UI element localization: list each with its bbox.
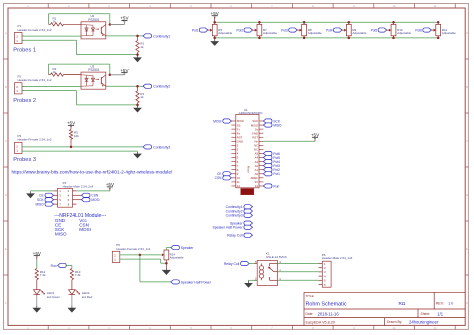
wire P4 pin1 to ground [31,190,54,192]
net flag Continuity3 (floating) [244,213,253,217]
net flag Relay Coil (floating) [244,233,253,237]
ground pot rail [214,39,216,41]
svg-text:+5V: +5V [33,251,42,256]
svg-text:MOSI: MOSI [79,227,91,232]
wire +5V stub [214,17,216,22]
wire +5V loop [48,14,50,24]
wire K1 pin4 to P6 pin1 [278,263,319,265]
wire R13 to LED2 [71,280,73,290]
resistor R6 Adjustable (pot) [214,22,216,24]
net flag Speaker (floating) [244,221,253,225]
net flag Pot6 [263,151,272,155]
svg-text:7.4k: 7.4k [75,273,81,277]
junction [437,21,440,24]
svg-text:Header-Female 2.54_1x2: Header-Female 2.54_1x2 [18,138,52,142]
svg-text:A: A [5,31,7,35]
svg-text:CE: CE [39,194,43,198]
junction [136,53,139,56]
svg-text:1k: 1k [140,45,144,49]
svg-text:MOSI: MOSI [91,198,99,202]
svg-text:GSLE-14 5VDC: GSLE-14 5VDC [266,255,288,259]
svg-text:PS2501: PS2501 [88,18,100,22]
junction [109,74,112,77]
junction [136,35,139,38]
svg-text:13: 13 [255,184,259,188]
wire P4 pin2 to +5V [76,190,110,192]
net flag CSN [223,176,232,180]
wire LED1 to ground [36,295,38,306]
svg-text:B: B [5,85,7,89]
svg-text:Relay Coil: Relay Coil [224,262,240,266]
junction [139,254,142,257]
svg-text:Pot1: Pot1 [192,28,199,32]
svg-text:led Red: led Red [82,295,93,299]
svg-text:Continuity1: Continuity1 [153,34,170,38]
svg-text:Adjustable: Adjustable [218,31,232,35]
net flag Speaker Half Power [171,280,180,284]
junction [303,21,306,24]
svg-text:1/1: 1/1 [437,312,443,317]
ground [30,191,32,193]
net flag Pot6 [423,28,432,32]
wire P pin1 to ground run [22,90,77,92]
net flag Continuity1 (floating) [244,205,253,209]
svg-text:Pot1: Pot1 [273,172,280,176]
net flag Continuity2 (floating) [244,209,253,213]
resistor R11 Adjustable (pot) [437,22,439,24]
svg-text:Rohm Schematic: Rohm Schematic [306,301,347,307]
ground [137,55,139,57]
svg-text:led Green: led Green [47,295,61,299]
svg-text:C: C [466,139,468,143]
svg-text:C: C [5,139,7,143]
wire K1 pin3 to P6 pin5 [278,279,319,281]
diode LED2 led Red [69,290,76,295]
svg-text:MOSI: MOSI [213,119,221,123]
svg-text:Adjustable: Adjustable [263,31,277,35]
svg-text:+5V: +5V [106,182,115,187]
svg-text:10k: 10k [74,134,79,138]
wire U1 Vin to +5V [263,140,315,142]
net flag Pot3 [263,164,272,168]
border row ticks left/right [4,58,9,60]
svg-text:A: A [466,31,468,35]
svg-text:Header-Female 2.54_1x2: Header-Female 2.54_1x2 [18,28,52,32]
svg-text:PS2501: PS2501 [88,68,100,72]
svg-text:E: E [5,247,7,251]
svg-text:Adjustable: Adjustable [308,31,322,35]
wire P3 pin2 to Continuity3 [22,146,143,148]
ground [137,106,139,108]
svg-text:CSN: CSN [215,176,222,180]
svg-text:Pot6: Pot6 [415,28,422,32]
svg-text:Pot2: Pot2 [237,28,244,32]
resistor R8 Adjustable (pot) [303,22,305,24]
net flag CSN [76,194,81,196]
net flag Pot4 [263,160,272,164]
wire R12 to LED1 [36,280,38,290]
svg-text:Sheet:: Sheet: [421,312,431,316]
svg-text:Micro: Micro [246,166,250,173]
resistor R14 Adjustable (pot) [164,250,169,260]
net flag SCK [45,198,54,202]
ground [165,268,167,270]
wire pot top to Speaker [165,248,167,250]
svg-text:Drawn By:: Drawn By: [387,320,402,324]
junction [165,262,168,265]
net flag Pot2 [263,168,272,172]
ground [137,152,139,154]
net flag MISO [45,202,54,206]
svg-text:Probes 2: Probes 2 [13,98,36,104]
wire Run to R13 [67,264,72,266]
svg-text:Continuity3: Continuity3 [226,214,243,218]
net flag Pot4 [333,28,342,32]
svg-text:Speaker: Speaker [181,246,194,250]
wire K1 pin1 to P6 pin3 [278,271,319,273]
svg-text:Pot4: Pot4 [326,28,333,32]
svg-text:2018-11-16: 2018-11-16 [318,312,340,317]
wire Relay Coil to K1 pin5 [249,263,254,265]
wire P pin2 to opto pin2 [22,35,81,37]
resistor R9 Adjustable (pot) [348,22,350,24]
svg-text:Pot5: Pot5 [371,28,378,32]
wire opto emitter to Continuity1 [106,35,143,37]
svg-text:D: D [5,193,7,197]
svg-text:Continuity3: Continuity3 [153,145,170,149]
wire to Speaker Half Power [139,255,141,282]
svg-text:+5V: +5V [211,11,220,16]
svg-text:MISO: MISO [273,123,282,127]
svg-text:B: B [466,85,468,89]
net flag CE [45,193,54,197]
net flag Pot3 [289,28,298,32]
U1 usb connector [241,189,254,195]
junction [136,85,139,88]
svg-text:Adjustable: Adjustable [352,31,366,35]
net flag Pot2 [244,28,253,32]
net flag Pot1 [263,172,272,176]
svg-text:Header-Male 2.54_2x4: Header-Male 2.54_2x4 [63,185,94,189]
junction [258,21,261,24]
svg-text:7.4k: 7.4k [40,273,46,277]
net flag SCK [263,119,272,123]
wire to +5V [110,24,125,26]
svg-text:Speaker Half Power: Speaker Half Power [212,226,243,230]
junction [213,21,216,24]
junction [392,21,395,24]
svg-text:Adjustable: Adjustable [170,256,184,260]
svg-text:Header-Female 2.54_1x2: Header-Female 2.54_1x2 [18,78,52,82]
svg-text:TITLE:: TITLE: [306,294,315,298]
svg-text:MISO: MISO [35,203,44,207]
junction [136,104,139,107]
wire P5 pin1 to pot bottom [120,258,161,260]
svg-text:+5V: +5V [311,133,320,138]
net flag Pot1 [199,28,208,32]
ground [248,281,250,283]
net flag Continuity2 [143,84,152,88]
svg-text:Continuity2: Continuity2 [153,85,170,89]
svg-text:Probes 1: Probes 1 [13,48,36,54]
wire +5V to R12 [36,260,38,269]
svg-text:+5V: +5V [120,68,129,73]
net flag CE [223,172,232,176]
wire LED2 to ground [71,295,73,306]
svg-text:CSN: CSN [91,194,98,198]
svg-text:D: D [466,193,468,197]
svg-text:Relay Coil: Relay Coil [227,234,243,238]
svg-text:Run: Run [273,184,279,188]
net flag Speaker Half Power (floating) [244,225,253,229]
wire top rail [215,21,439,23]
wire bottom rail [215,37,439,39]
svg-text:RΩ: RΩ [399,301,406,306]
net flag Relay Coil [241,261,250,265]
svg-text:1k: 1k [140,95,144,99]
resistor R10 Adjustable (pot) [393,22,395,24]
wire to +5V [110,74,125,76]
wire opto emitter to Continuity2 [106,85,143,87]
svg-text:MISO: MISO [55,232,67,237]
junction [348,21,351,24]
net flag Continuity1 [143,34,152,38]
svg-text:SCK: SCK [37,198,44,202]
net flag Pot5 [378,28,387,32]
net flag Pot5 [263,155,272,159]
junction [70,146,73,149]
junction [109,23,112,26]
svg-text:Pot3: Pot3 [281,28,288,32]
svg-text:E: E [466,247,468,251]
svg-text:REV:: REV: [436,301,444,305]
wire P3 pin1 to ground [22,150,138,152]
svg-text:+5V: +5V [67,121,76,126]
svg-text:Probes 3: Probes 3 [13,157,36,163]
svg-text:Adjustable: Adjustable [397,31,411,35]
wire K1 pin2 to ground [249,279,258,281]
svg-text:EasyEDA V5.8.20: EasyEDA V5.8.20 [306,320,335,324]
svg-text:Speaker Half Power: Speaker Half Power [181,280,212,284]
svg-text:24hourengineer: 24hourengineer [409,320,439,325]
net flag MISO [263,123,272,127]
net flag Continuity3 [143,145,152,149]
wire pot bottom stub [165,260,167,268]
svg-text:Run: Run [51,264,57,268]
net flag Speaker [171,246,180,250]
svg-text:12: 12 [237,184,241,188]
wire P pin2 to opto pin2 [22,85,81,87]
ground [36,306,38,308]
border column ticks top/bottom [47,4,49,9]
svg-text:Adjustable: Adjustable [442,31,456,35]
svg-text:Header-Female 2.54_1x2: Header-Female 2.54_1x2 [116,247,150,251]
wire +5V loop [48,64,50,75]
wire P pin1 to ground run [22,39,77,41]
diode LED1 led Green [34,290,41,295]
wire P5 pin2 to pot wiper [120,254,162,256]
svg-text:Date:: Date: [306,312,314,316]
svg-text:+5V: +5V [120,16,129,21]
svg-text:https://www.brainy-bits.com/ho: https://www.brainy-bits.com/how-to-use-t… [12,170,173,175]
title block [304,292,465,325]
svg-text:Header-Male 2.54_1x6: Header-Male 2.54_1x6 [322,256,353,260]
resistor R7 Adjustable (pot) [258,22,260,24]
net flag MOSI [76,199,81,201]
svg-text:1.0: 1.0 [448,301,453,305]
ground [71,306,73,308]
net flag Run [263,184,272,188]
net flag MOSI [223,119,232,123]
